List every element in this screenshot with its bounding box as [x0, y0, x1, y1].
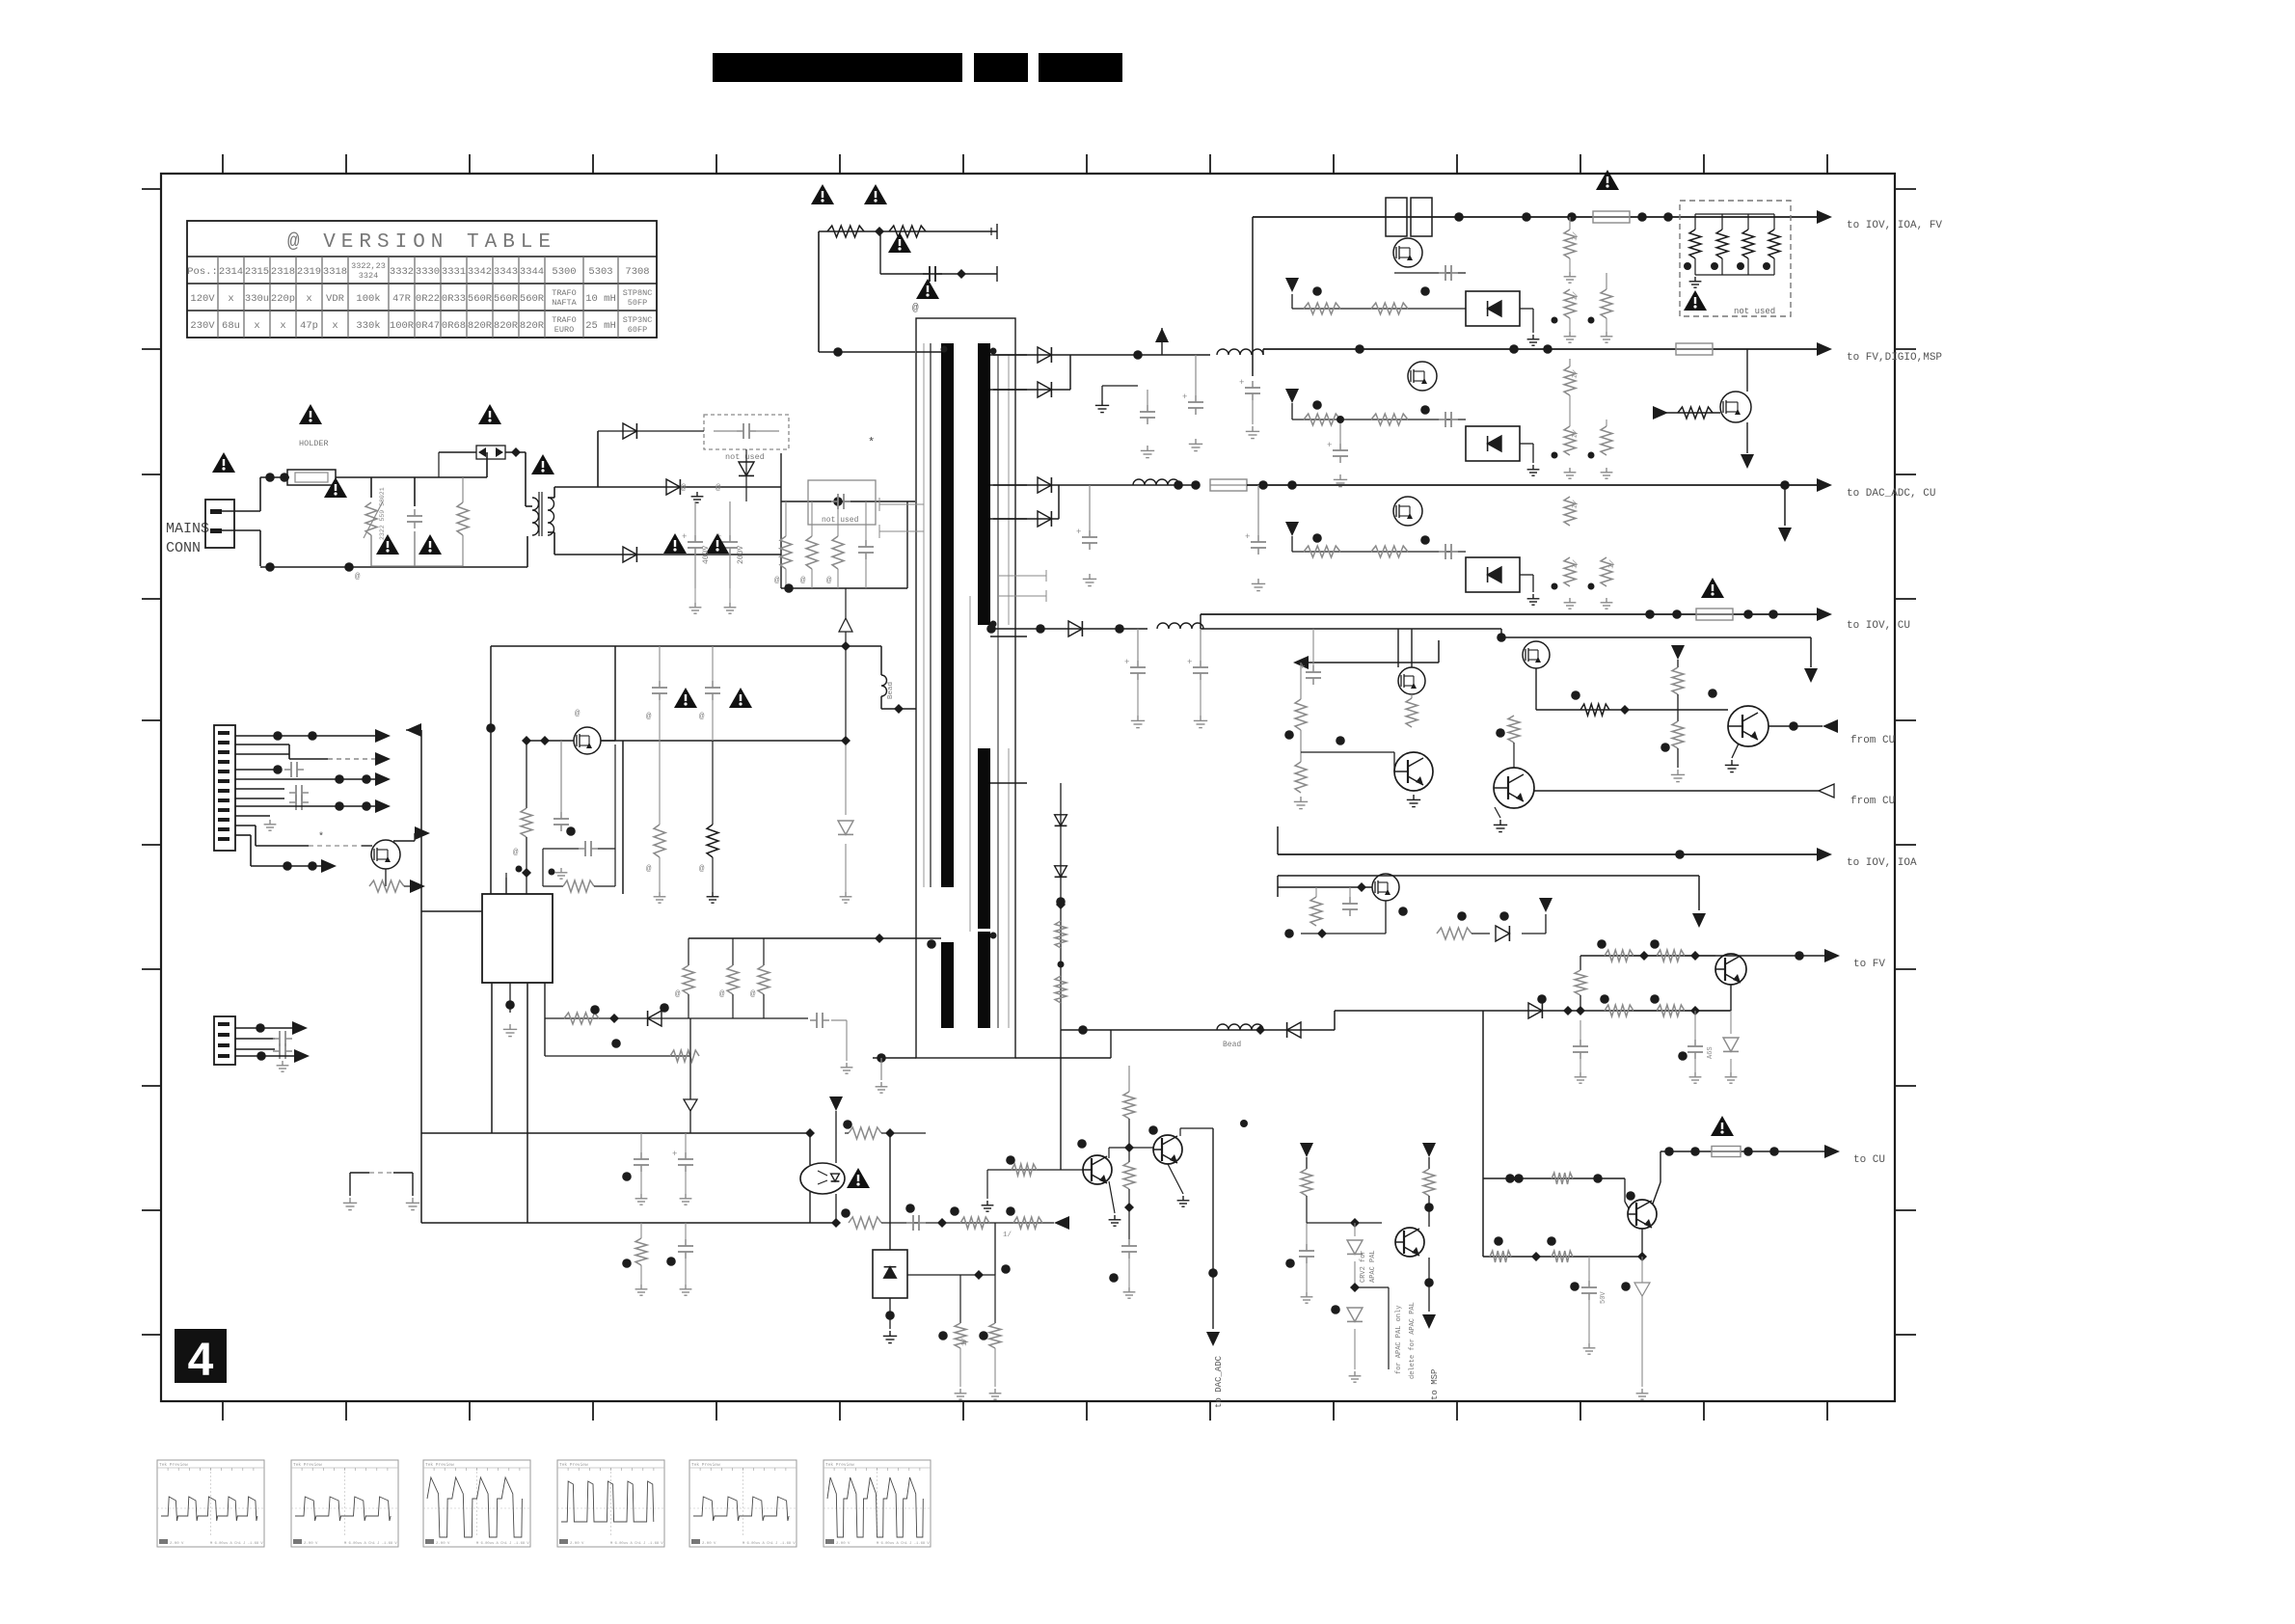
svg-text:220p: 220p: [271, 293, 295, 305]
svg-text:100R: 100R: [390, 320, 415, 332]
svg-text:2315: 2315: [245, 266, 269, 278]
svg-text:+: +: [1300, 663, 1305, 672]
svg-text:+: +: [672, 1150, 677, 1159]
svg-text:to DAC_ADC, CU: to DAC_ADC, CU: [1847, 488, 1935, 500]
svg-text:M 6.00us A Ch1 J -1.68 V: M 6.00us A Ch1 J -1.68 V: [344, 1541, 397, 1546]
svg-text:2318: 2318: [271, 266, 295, 278]
svg-text:@: @: [646, 712, 652, 721]
svg-text:for APAC PAL only: for APAC PAL only: [1395, 1306, 1403, 1374]
svg-text:not used: not used: [822, 516, 859, 525]
svg-text:to MSP: to MSP: [1430, 1369, 1440, 1400]
svg-text:+: +: [1124, 658, 1129, 667]
svg-text:HOLDER: HOLDER: [299, 439, 329, 448]
svg-text:560R: 560R: [520, 293, 545, 305]
svg-text:47p: 47p: [300, 320, 318, 332]
svg-text:to FV: to FV: [1853, 959, 1885, 970]
svg-text:M 6.00us A Ch1 J -1.68 V: M 6.00us A Ch1 J -1.68 V: [476, 1541, 529, 1546]
svg-text:x: x: [254, 320, 259, 332]
svg-text:330u: 330u: [245, 293, 269, 305]
svg-text:120V: 120V: [190, 293, 215, 305]
svg-text:3330: 3330: [416, 266, 440, 278]
svg-text:3332: 3332: [390, 266, 414, 278]
svg-text:560R: 560R: [468, 293, 493, 305]
svg-text:@: @: [513, 848, 519, 857]
svg-text:Pos.:: Pos.:: [187, 266, 218, 278]
svg-text:*: *: [318, 831, 324, 843]
svg-text:2.00 V: 2.00 V: [702, 1542, 716, 1546]
svg-text:@: @: [699, 864, 705, 874]
svg-text:M 6.00us A Ch1 J -1.68 V: M 6.00us A Ch1 J -1.68 V: [210, 1541, 263, 1546]
svg-text:@: @: [800, 576, 806, 585]
svg-text:M 6.00us A Ch1 J -1.68 V: M 6.00us A Ch1 J -1.68 V: [610, 1541, 663, 1546]
svg-text:2322 559 58021: 2322 559 58021: [379, 487, 386, 540]
svg-text:Tek Preview: Tek Preview: [159, 1462, 188, 1468]
svg-text:Tek Preview: Tek Preview: [825, 1462, 854, 1468]
svg-text:x: x: [306, 293, 311, 305]
svg-text:@: @: [699, 712, 705, 721]
svg-text:47R: 47R: [392, 293, 412, 305]
svg-text:0R22: 0R22: [416, 293, 440, 305]
svg-text:@: @: [826, 576, 832, 585]
svg-text:0R68: 0R68: [442, 320, 466, 332]
svg-text:M 6.00us A Ch1 J -1.68 V: M 6.00us A Ch1 J -1.68 V: [742, 1541, 796, 1546]
svg-text:from CU: from CU: [1850, 735, 1895, 746]
svg-text:APAC PAL: APAC PAL: [1369, 1250, 1377, 1283]
svg-text:TRAFO: TRAFO: [552, 288, 577, 298]
svg-text:3318: 3318: [323, 266, 347, 278]
svg-text:M 6.00us A Ch1 J -1.68 V: M 6.00us A Ch1 J -1.68 V: [877, 1541, 930, 1546]
svg-text:@: @: [681, 483, 687, 493]
svg-text:2319: 2319: [297, 266, 321, 278]
svg-text:+: +: [1182, 392, 1187, 402]
svg-text:400V: 400V: [702, 546, 711, 564]
svg-text:10 mH: 10 mH: [585, 293, 616, 305]
svg-text:3343: 3343: [494, 266, 518, 278]
svg-text:100k: 100k: [356, 293, 380, 305]
svg-text:2314: 2314: [219, 266, 243, 278]
svg-text:not used: not used: [1734, 307, 1775, 316]
svg-text:0R33: 0R33: [442, 293, 466, 305]
svg-text:1/: 1/: [1003, 1232, 1012, 1239]
svg-text:3324: 3324: [359, 271, 378, 281]
svg-text:+: +: [1187, 658, 1192, 667]
svg-text:to DAC_ADC: to DAC_ADC: [1214, 1355, 1224, 1408]
svg-text:5300: 5300: [552, 266, 576, 278]
svg-text:@: @: [575, 709, 580, 718]
svg-text:5303: 5303: [588, 266, 612, 278]
svg-text:@: @: [355, 572, 361, 582]
svg-text:STP8NC: STP8NC: [623, 288, 653, 298]
svg-text:to CU: to CU: [1853, 1154, 1885, 1166]
svg-text:@: @: [774, 576, 780, 585]
svg-text:@: @: [719, 989, 725, 999]
svg-text:@: @: [912, 303, 919, 314]
svg-text:@: @: [675, 989, 681, 999]
svg-text:50FP: 50FP: [628, 298, 647, 308]
svg-text:2.00 V: 2.00 V: [570, 1542, 584, 1546]
svg-text:60FP: 60FP: [628, 325, 647, 335]
svg-text:not used: not used: [725, 452, 765, 462]
svg-text:delete for APAC PAL: delete for APAC PAL: [1409, 1302, 1417, 1379]
svg-text:to IOV, CU: to IOV, CU: [1847, 620, 1910, 632]
svg-text:+: +: [682, 532, 687, 542]
svg-text:560R: 560R: [494, 293, 519, 305]
svg-text:3322,23: 3322,23: [351, 261, 386, 271]
svg-text:@ VERSION TABLE: @ VERSION TABLE: [287, 231, 556, 254]
svg-text:*: *: [868, 436, 875, 449]
svg-text:Bead: Bead: [1223, 1041, 1241, 1049]
svg-text:2.00 V: 2.00 V: [170, 1542, 184, 1546]
svg-text:200V: 200V: [737, 546, 745, 564]
svg-text:+: +: [1245, 532, 1250, 542]
svg-text:Tek Preview: Tek Preview: [293, 1462, 322, 1468]
svg-text:+: +: [1239, 378, 1244, 388]
svg-text:Tek Preview: Tek Preview: [691, 1462, 720, 1468]
svg-text:Tek Preview: Tek Preview: [559, 1462, 588, 1468]
svg-text:820R: 820R: [520, 320, 545, 332]
svg-text:TRAFO: TRAFO: [552, 315, 577, 325]
svg-text:to IOV, IOA: to IOV, IOA: [1847, 857, 1917, 869]
svg-text:820R: 820R: [494, 320, 519, 332]
svg-text:0R47: 0R47: [416, 320, 440, 332]
svg-text:2.00 V: 2.00 V: [836, 1542, 850, 1546]
svg-text:7308: 7308: [625, 266, 649, 278]
svg-text:230V: 230V: [190, 320, 215, 332]
svg-text:3344: 3344: [520, 266, 544, 278]
svg-text:NAFTA: NAFTA: [552, 298, 577, 308]
svg-text:820R: 820R: [468, 320, 493, 332]
svg-text:68u: 68u: [222, 320, 240, 332]
svg-text:@: @: [646, 864, 652, 874]
svg-text:MAINS: MAINS: [166, 521, 209, 537]
svg-text:3342: 3342: [468, 266, 492, 278]
svg-text:+: +: [1327, 441, 1332, 450]
svg-text:330k: 330k: [356, 320, 380, 332]
svg-text:CONN: CONN: [166, 540, 201, 556]
svg-text:@: @: [750, 989, 756, 999]
svg-text:x: x: [332, 320, 337, 332]
svg-text:25 mH: 25 mH: [585, 320, 616, 332]
svg-text:A6S: A6S: [1707, 1046, 1714, 1059]
svg-text:2.00 V: 2.00 V: [436, 1542, 450, 1546]
svg-text:@: @: [715, 483, 721, 493]
svg-text:to IOV, IOA, FV: to IOV, IOA, FV: [1847, 220, 1942, 231]
svg-text:x: x: [228, 293, 233, 305]
svg-text:VDR: VDR: [326, 293, 345, 305]
svg-text:1/: 1/: [961, 1337, 969, 1346]
svg-text:3331: 3331: [442, 266, 466, 278]
svg-text:Bead: Bead: [887, 682, 895, 699]
svg-text:+: +: [1076, 528, 1081, 537]
svg-text:50V: 50V: [1600, 1291, 1607, 1304]
svg-text:2.00 V: 2.00 V: [304, 1542, 318, 1546]
svg-text:4: 4: [188, 1335, 214, 1386]
svg-text:Tek Preview: Tek Preview: [425, 1462, 454, 1468]
svg-text:STP3NC: STP3NC: [623, 315, 653, 325]
svg-text:CRV2 for: CRV2 for: [1360, 1250, 1367, 1283]
svg-text:x: x: [280, 320, 285, 332]
svg-text:EURO: EURO: [554, 325, 574, 335]
svg-text:to FV,DIGIO,MSP: to FV,DIGIO,MSP: [1847, 352, 1942, 364]
svg-text:from CU: from CU: [1850, 796, 1895, 807]
